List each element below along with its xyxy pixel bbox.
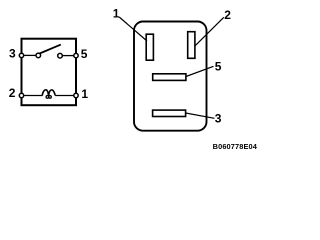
leader line pin 2	[195, 17, 224, 45]
wire pin3 to switch contact	[22, 54, 37, 56]
pin 5 slot	[153, 74, 186, 81]
relay schematic box	[22, 39, 77, 106]
pin 1 terminal	[74, 93, 78, 97]
pin 2 terminal	[19, 93, 23, 97]
svg-text:5: 5	[81, 47, 88, 61]
switch contact circle right	[58, 53, 63, 58]
svg-text:2: 2	[9, 86, 16, 100]
wire switch contact to pin5	[60, 55, 76, 57]
svg-text:1: 1	[81, 87, 88, 101]
relay body outline	[134, 22, 207, 131]
svg-text:3: 3	[215, 111, 222, 125]
svg-text:1: 1	[113, 6, 120, 20]
switch arm	[40, 45, 61, 54]
leader line pin 5	[186, 66, 214, 76]
leader line pin 3	[186, 113, 215, 118]
coil L	[42, 90, 55, 98]
wire pin2 to coil	[22, 95, 43, 97]
pin 1 slot	[146, 34, 153, 60]
svg-text:2: 2	[224, 8, 231, 22]
pin 3 slot	[153, 110, 186, 116]
pin 3 terminal	[19, 53, 23, 57]
pin 2 slot	[188, 32, 195, 59]
pin 5 terminal	[74, 53, 78, 57]
wire coil to pin1	[55, 95, 76, 97]
leader line pin 1	[119, 17, 147, 41]
svg-text:B060778E04: B060778E04	[213, 142, 258, 151]
svg-text:3: 3	[9, 46, 16, 60]
switch contact circle left	[36, 53, 41, 58]
svg-text:5: 5	[215, 59, 222, 73]
